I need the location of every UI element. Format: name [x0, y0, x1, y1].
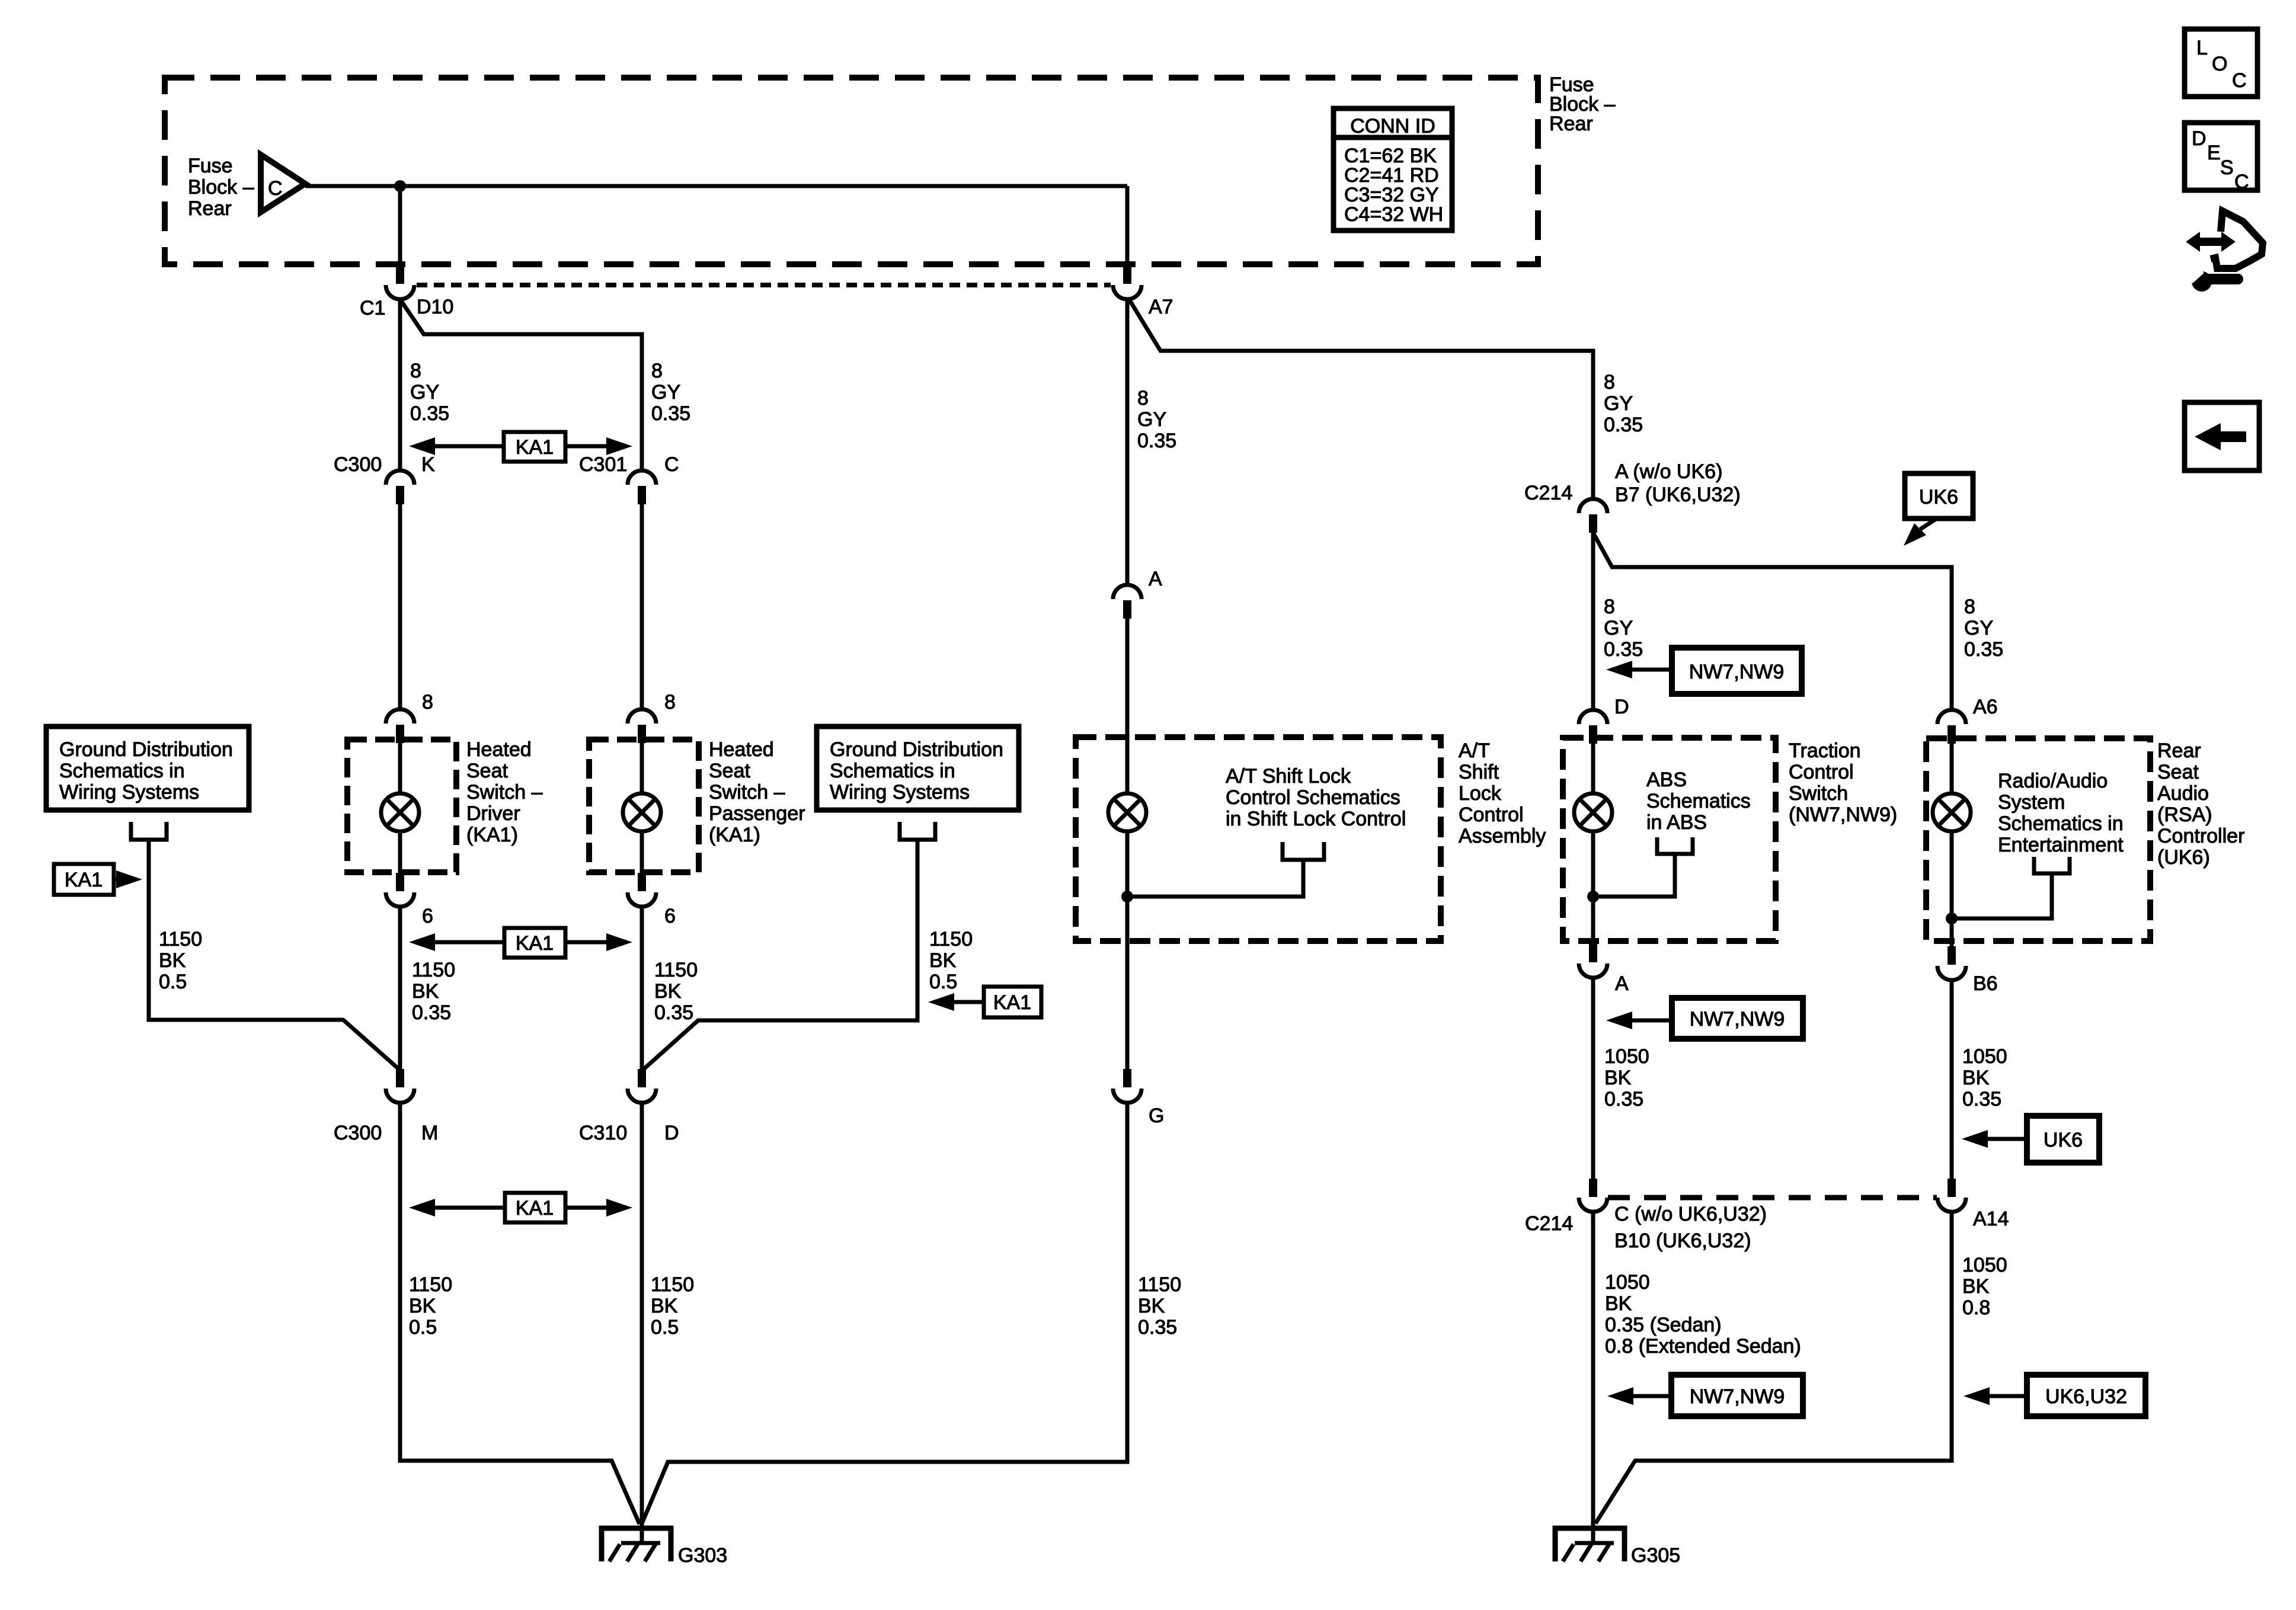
svg-text:UK6: UK6 [2044, 1129, 2083, 1151]
fuse block rear dashed box [165, 78, 1538, 264]
svg-text:Schematics in: Schematics in [1998, 812, 2124, 835]
svg-text:C: C [2234, 171, 2249, 193]
wire from RSA bracket [1952, 873, 2052, 918]
svg-text:1150: 1150 [654, 959, 698, 981]
wire label 8 GY 0.35 col5 [1964, 596, 2003, 661]
svg-text:(NW7,NW9): (NW7,NW9) [1789, 804, 1897, 826]
svg-text:BK: BK [412, 980, 439, 1003]
connector C1 (pin D10) [386, 265, 414, 299]
svg-text:E: E [2207, 142, 2221, 164]
svg-text:8: 8 [1604, 596, 1615, 618]
wire: col3 drop to A7 [1125, 186, 1130, 266]
UK6 label box with arrow [1904, 473, 1973, 546]
KA1 arrow box left [54, 864, 142, 895]
NW7,NW9 arrow box 1 [1606, 648, 1802, 694]
svg-text:D: D [2192, 127, 2207, 150]
svg-text:6: 6 [422, 905, 433, 927]
wire from bracket 1 [149, 840, 400, 1070]
svg-text:Switch: Switch [1789, 782, 1848, 805]
svg-text:Rear: Rear [188, 197, 232, 220]
wire label 8 GY 0.35 col4 mid [1604, 596, 1643, 661]
svg-text:C214: C214 [1524, 482, 1572, 504]
svg-text:(UK6): (UK6) [2157, 846, 2210, 869]
svg-text:BK: BK [654, 980, 682, 1003]
node junction dot col5 [1946, 913, 1958, 924]
svg-text:Fuse: Fuse [188, 155, 233, 177]
svg-text:BK: BK [929, 949, 957, 972]
wire col4 to D [1591, 533, 1595, 710]
UK6,U32 arrow box [1964, 1375, 2145, 1416]
svg-text:Wiring Systems: Wiring Systems [59, 781, 199, 804]
rear seat audio dashed box [1926, 738, 2150, 941]
svg-text:NW7,NW9: NW7,NW9 [1690, 1385, 1785, 1408]
KA1 harness symbol 2 [409, 928, 632, 958]
svg-text:Ground Distribution: Ground Distribution [830, 738, 1003, 761]
ground G303 [602, 1528, 671, 1561]
svg-text:GY: GY [1964, 617, 1993, 639]
svg-text:M: M [421, 1122, 438, 1144]
svg-text:0.35: 0.35 [651, 402, 690, 425]
wire col3 G to ground [642, 1103, 1127, 1523]
svg-text:G303: G303 [678, 1544, 727, 1567]
wire label 1150 BK 0.5 left [159, 928, 202, 993]
svg-text:Controller: Controller [2157, 825, 2244, 847]
svg-text:C4=32 WH: C4=32 WH [1344, 203, 1443, 226]
svg-text:BK: BK [1962, 1067, 1990, 1089]
wire col1 M to ground [400, 1103, 639, 1524]
svg-text:C310: C310 [579, 1122, 627, 1144]
wire col2 6 to D [640, 907, 644, 1071]
svg-text:CONN ID: CONN ID [1350, 115, 1435, 137]
svg-text:NW7,NW9: NW7,NW9 [1690, 1008, 1785, 1030]
svg-text:Passenger: Passenger [709, 802, 805, 825]
svg-text:Audio: Audio [2157, 782, 2209, 805]
connector C214 pin A/B7 [1579, 499, 1607, 533]
svg-text:8: 8 [410, 360, 421, 382]
ground distribution box 1 [46, 726, 249, 810]
connector C214 pin C/B10 [1579, 1179, 1607, 1212]
NW7,NW9 arrow box 3 [1607, 1375, 1803, 1416]
svg-text:Schematics: Schematics [1646, 790, 1751, 812]
svg-text:KA1: KA1 [516, 436, 554, 459]
wire col4 C214 to G305 [1591, 1212, 1595, 1543]
connector pin 6 (driver) [386, 873, 414, 907]
svg-text:Seat: Seat [2157, 761, 2199, 783]
KA1 harness symbol 1 [409, 432, 632, 462]
svg-text:8: 8 [1964, 596, 1975, 618]
wire: dotted harness line C1 to A7 [417, 283, 1111, 287]
svg-text:0.35 (Sedan): 0.35 (Sedan) [1605, 1314, 1722, 1336]
bracket RSA schematics [2034, 857, 2070, 873]
svg-text:(KA1): (KA1) [709, 824, 760, 846]
wire col2 C to 8 [640, 504, 644, 709]
icon DESC box [2185, 123, 2257, 193]
svg-text:C300: C300 [334, 1122, 382, 1144]
wire: dashed harness line C214 to A14 [1608, 1195, 1937, 1201]
connector C300 pin M [386, 1069, 414, 1103]
heated seat switch driver dashed box [347, 740, 456, 872]
svg-text:1150: 1150 [1138, 1273, 1181, 1296]
svg-text:Assembly: Assembly [1459, 825, 1546, 847]
fuse triangle C [261, 155, 305, 212]
svg-text:GY: GY [1604, 617, 1633, 639]
svg-text:1050: 1050 [1962, 1254, 2007, 1276]
lamp heated seat passenger [623, 793, 661, 831]
svg-text:K: K [421, 453, 435, 476]
svg-text:KA1: KA1 [516, 1197, 554, 1219]
bracket ABS schematics [1657, 837, 1693, 854]
wire: col1 C1 to C300 [398, 299, 402, 472]
fuse block rear label (left) [188, 155, 254, 220]
svg-text:0.35: 0.35 [412, 1001, 451, 1024]
svg-text:in Shift Lock Control: in Shift Lock Control [1226, 808, 1406, 830]
wire label 1050 BK 0.35 col5 [1962, 1045, 2007, 1110]
connector C300 pin K [386, 470, 414, 504]
svg-text:D10: D10 [417, 296, 453, 318]
svg-text:BK: BK [1138, 1295, 1165, 1317]
svg-text:KA1: KA1 [516, 932, 554, 955]
svg-text:6: 6 [664, 905, 676, 927]
UK6 arrow box mid [1962, 1116, 2099, 1163]
svg-text:B10 (UK6,U32): B10 (UK6,U32) [1614, 1230, 1751, 1252]
node junction dot col3 [1121, 891, 1133, 902]
A/T shift lock control assembly dashed box [1076, 737, 1441, 941]
bracket shift lock schematics [1283, 842, 1324, 860]
wire label 1150 BK 0.35 col2 [654, 959, 698, 1024]
connector pin A (traction lower) [1579, 944, 1607, 978]
wire label 1150 BK 0.5 right [929, 928, 973, 993]
wire label 1050 BK 0.35 Sedan col4 [1605, 1271, 1801, 1358]
wire col5 A6 into box [1950, 744, 1954, 793]
svg-text:A (w/o UK6): A (w/o UK6) [1615, 460, 1722, 483]
svg-text:A6: A6 [1973, 696, 1998, 718]
wire: col1 drop to C1 [398, 186, 402, 266]
svg-text:in ABS: in ABS [1646, 811, 1707, 834]
lamp traction [1574, 793, 1612, 831]
wire col3 to G [1125, 897, 1130, 1070]
wire col4 lamp to A [1591, 831, 1595, 944]
lamp heated seat driver [381, 793, 419, 831]
svg-text:KA1: KA1 [993, 991, 1031, 1014]
svg-text:Rear: Rear [1549, 113, 1593, 135]
svg-text:BK: BK [651, 1295, 678, 1317]
wire col5 B6 to A14 [1950, 980, 1954, 1179]
node junction dot col4 [1587, 891, 1599, 902]
svg-text:Entertainment: Entertainment [1998, 834, 2124, 856]
svg-text:0.35: 0.35 [1964, 638, 2003, 661]
svg-text:G: G [1149, 1105, 1164, 1127]
svg-text:Switch –: Switch – [709, 781, 785, 804]
wire col5 lamp to B6 [1950, 831, 1954, 946]
wire: top feed horizontal [305, 184, 1127, 188]
svg-text:0.5: 0.5 [929, 971, 957, 993]
svg-text:A14: A14 [1973, 1208, 2009, 1230]
svg-text:(KA1): (KA1) [466, 824, 518, 846]
connector pin D (traction) [1579, 710, 1607, 744]
icon tool (double arrow and wrench) [2186, 211, 2263, 292]
svg-text:Heated: Heated [709, 738, 774, 761]
fuse block rear label (right) [1549, 73, 1616, 135]
svg-text:Block –: Block – [188, 176, 254, 199]
wire col1 K to 8 [398, 504, 402, 709]
svg-text:BK: BK [409, 1295, 436, 1317]
wire label 1050 BK 0.8 col5 [1962, 1254, 2007, 1319]
svg-text:S: S [2220, 156, 2234, 179]
svg-text:8: 8 [1137, 387, 1149, 409]
svg-text:Lock: Lock [1459, 782, 1502, 805]
wire label 1150 BK 0.5 col2 bottom [651, 1273, 694, 1339]
connector pin G [1113, 1069, 1141, 1103]
svg-text:C300: C300 [334, 453, 382, 476]
svg-text:0.35: 0.35 [1604, 638, 1643, 661]
svg-text:1150: 1150 [651, 1273, 694, 1296]
connector pin 8 (passenger) [628, 709, 656, 743]
wire col3 A to lamp [1125, 619, 1130, 897]
svg-text:UK6,U32: UK6,U32 [2045, 1385, 2127, 1408]
svg-text:C1: C1 [360, 297, 385, 319]
wire from bracket to col3 [1127, 860, 1303, 897]
svg-text:Seat: Seat [466, 760, 508, 782]
wire from ABS bracket [1593, 854, 1675, 897]
svg-text:0.35: 0.35 [1962, 1088, 2001, 1110]
svg-text:Driver: Driver [466, 802, 520, 825]
svg-text:0.5: 0.5 [651, 1316, 679, 1339]
traction control switch dashed box [1563, 738, 1776, 941]
svg-text:Ground Distribution: Ground Distribution [59, 738, 233, 761]
svg-text:GY: GY [410, 381, 439, 404]
svg-text:0.5: 0.5 [409, 1316, 437, 1339]
svg-text:0.35: 0.35 [1604, 1088, 1643, 1110]
svg-text:BK: BK [159, 949, 186, 972]
connector A7 [1113, 265, 1141, 299]
wire col1 through driver switch [398, 743, 402, 875]
svg-text:8: 8 [651, 360, 663, 382]
wire col5 A14 to ground [1595, 1212, 1952, 1523]
wire: D10 branch to column 2 [400, 299, 642, 472]
svg-text:Seat: Seat [709, 760, 750, 782]
connector C310 pin D [628, 1069, 656, 1103]
svg-text:0.5: 0.5 [159, 971, 187, 993]
wire label 1150 BK 0.35 col1 [412, 959, 455, 1024]
svg-text:A: A [1149, 568, 1162, 590]
KA1 arrow box right [928, 987, 1041, 1017]
CONN ID table [1334, 108, 1452, 231]
svg-text:0.35: 0.35 [410, 402, 449, 425]
svg-text:Schematics in: Schematics in [830, 760, 955, 782]
svg-text:(RSA): (RSA) [2157, 804, 2212, 826]
svg-text:8: 8 [1604, 371, 1615, 393]
svg-text:Radio/Audio: Radio/Audio [1998, 770, 2108, 792]
svg-text:B6: B6 [1973, 972, 1998, 995]
wire col4 D into box [1591, 744, 1595, 793]
svg-text:A/T: A/T [1459, 740, 1490, 762]
svg-text:B7 (UK6,U32): B7 (UK6,U32) [1615, 484, 1741, 506]
connector C301 pin C [628, 470, 656, 504]
svg-text:NW7,NW9: NW7,NW9 [1689, 661, 1785, 683]
connector pin A6 (RSA) [1937, 710, 1966, 744]
svg-text:D: D [664, 1122, 679, 1144]
connector pin A14 [1937, 1179, 1966, 1212]
svg-text:L: L [2196, 37, 2208, 59]
svg-text:8: 8 [422, 691, 433, 713]
NW7,NW9 arrow box 2 [1606, 998, 1803, 1039]
svg-text:0.8: 0.8 [1962, 1297, 1990, 1319]
svg-text:Traction: Traction [1789, 740, 1861, 762]
wire from bracket 2 [642, 840, 917, 1071]
svg-text:C: C [268, 177, 283, 200]
wire label 8 GY 0.35 col1 [410, 360, 449, 425]
svg-text:GY: GY [651, 381, 680, 404]
svg-text:0.8 (Extended Sedan): 0.8 (Extended Sedan) [1605, 1335, 1801, 1358]
svg-text:0.35: 0.35 [1604, 414, 1643, 436]
svg-text:A/T Shift Lock: A/T Shift Lock [1226, 765, 1351, 788]
node junction dot col1 [394, 180, 406, 192]
icon back arrow box [2185, 402, 2259, 470]
svg-text:1150: 1150 [159, 928, 202, 950]
wire label 8 GY 0.35 col3 [1137, 387, 1176, 452]
lamp RSA [1933, 793, 1971, 831]
svg-text:Shift: Shift [1459, 761, 1499, 783]
svg-text:1150: 1150 [412, 959, 455, 981]
svg-text:BK: BK [1604, 1067, 1632, 1089]
svg-text:0.35: 0.35 [654, 1001, 693, 1024]
svg-text:System: System [1998, 791, 2065, 814]
connector pin A (shift lock) [1113, 585, 1141, 619]
svg-text:Switch –: Switch – [466, 781, 543, 804]
svg-text:8: 8 [664, 691, 676, 713]
connector pin 6 (passenger) [628, 873, 656, 907]
svg-text:0.35: 0.35 [1137, 430, 1176, 452]
svg-text:C: C [2232, 69, 2247, 92]
bracket under ground distribution box 2 [900, 822, 935, 840]
connector pin B6 (RSA lower) [1937, 946, 1966, 980]
svg-text:UK6: UK6 [1919, 486, 1958, 508]
svg-text:ABS: ABS [1646, 769, 1687, 791]
connector pin 8 (driver) [386, 709, 414, 743]
svg-text:BK: BK [1605, 1292, 1632, 1315]
svg-text:1050: 1050 [1605, 1271, 1650, 1294]
wire col2 D to ground [640, 1103, 644, 1543]
svg-text:A7: A7 [1149, 296, 1173, 318]
wire col4 A to C214 [1591, 978, 1595, 1179]
wire UK6 branch to column 5 [1593, 533, 1952, 710]
svg-text:Control Schematics: Control Schematics [1226, 786, 1400, 809]
svg-text:Wiring Systems: Wiring Systems [830, 781, 970, 804]
wire label 1050 BK 0.35 col4 [1604, 1045, 1649, 1110]
svg-text:1050: 1050 [1962, 1045, 2007, 1068]
svg-text:Rear: Rear [2157, 740, 2201, 762]
svg-text:BK: BK [1962, 1275, 1990, 1298]
svg-text:C214: C214 [1525, 1212, 1573, 1235]
svg-text:C: C [664, 453, 679, 476]
ground distribution box 2 [817, 726, 1019, 810]
bracket under ground distribution box 1 [131, 822, 167, 840]
svg-text:1050: 1050 [1604, 1045, 1649, 1068]
svg-text:C301: C301 [579, 453, 627, 476]
svg-text:O: O [2212, 53, 2227, 75]
svg-text:KA1: KA1 [65, 869, 103, 891]
wire label 8 GY 0.35 col4 top [1604, 371, 1643, 436]
svg-text:C (w/o UK6,U32): C (w/o UK6,U32) [1614, 1203, 1767, 1225]
svg-text:D: D [1614, 696, 1629, 718]
heated seat switch passenger dashed box [589, 740, 699, 872]
svg-text:Control: Control [1459, 804, 1524, 826]
svg-text:GY: GY [1604, 392, 1633, 415]
wire col2 through passenger switch [640, 743, 644, 875]
wire label 1150 BK 0.35 col3 [1138, 1273, 1181, 1339]
wire label 8 GY 0.35 col2 [651, 360, 690, 425]
wire label 1150 BK 0.5 col1 bottom [409, 1273, 452, 1339]
svg-text:A: A [1615, 972, 1629, 995]
icon LOC box [2185, 29, 2257, 97]
lamp shift lock [1108, 793, 1146, 831]
svg-text:Heated: Heated [466, 738, 532, 761]
ground G305 [1555, 1528, 1625, 1561]
svg-text:G305: G305 [1631, 1544, 1680, 1567]
svg-text:1150: 1150 [409, 1273, 452, 1296]
svg-text:Schematics in: Schematics in [59, 760, 185, 782]
wire col3 A7 down [1125, 299, 1130, 585]
wire col1 6 to M [398, 907, 402, 1071]
KA1 harness symbol 3 [409, 1193, 632, 1222]
svg-text:1150: 1150 [929, 928, 973, 950]
svg-text:GY: GY [1137, 408, 1166, 431]
svg-text:Control: Control [1789, 761, 1854, 783]
svg-text:0.35: 0.35 [1138, 1316, 1177, 1339]
wire A7 branch to column 4 [1129, 299, 1593, 499]
